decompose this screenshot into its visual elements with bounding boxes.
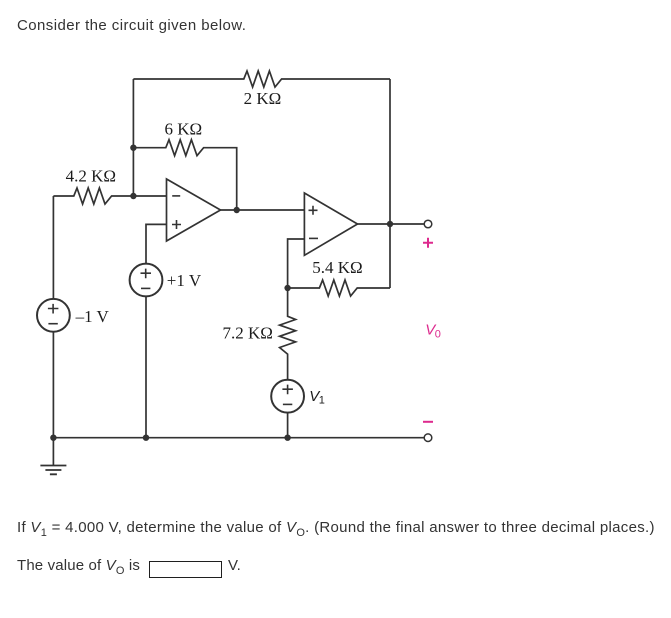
svg-text:V1: V1 — [309, 388, 325, 407]
svg-text:2 KΩ: 2 KΩ — [244, 89, 282, 108]
svg-text:4.2 KΩ: 4.2 KΩ — [66, 167, 116, 186]
svg-text:V0: V0 — [425, 322, 441, 341]
svg-text:7.2 KΩ: 7.2 KΩ — [222, 323, 272, 342]
svg-text:5.4 KΩ: 5.4 KΩ — [312, 258, 362, 277]
svg-text:–1 V: –1 V — [75, 307, 110, 326]
svg-text:6 KΩ: 6 KΩ — [164, 120, 202, 139]
svg-text:+1 V: +1 V — [167, 271, 202, 290]
